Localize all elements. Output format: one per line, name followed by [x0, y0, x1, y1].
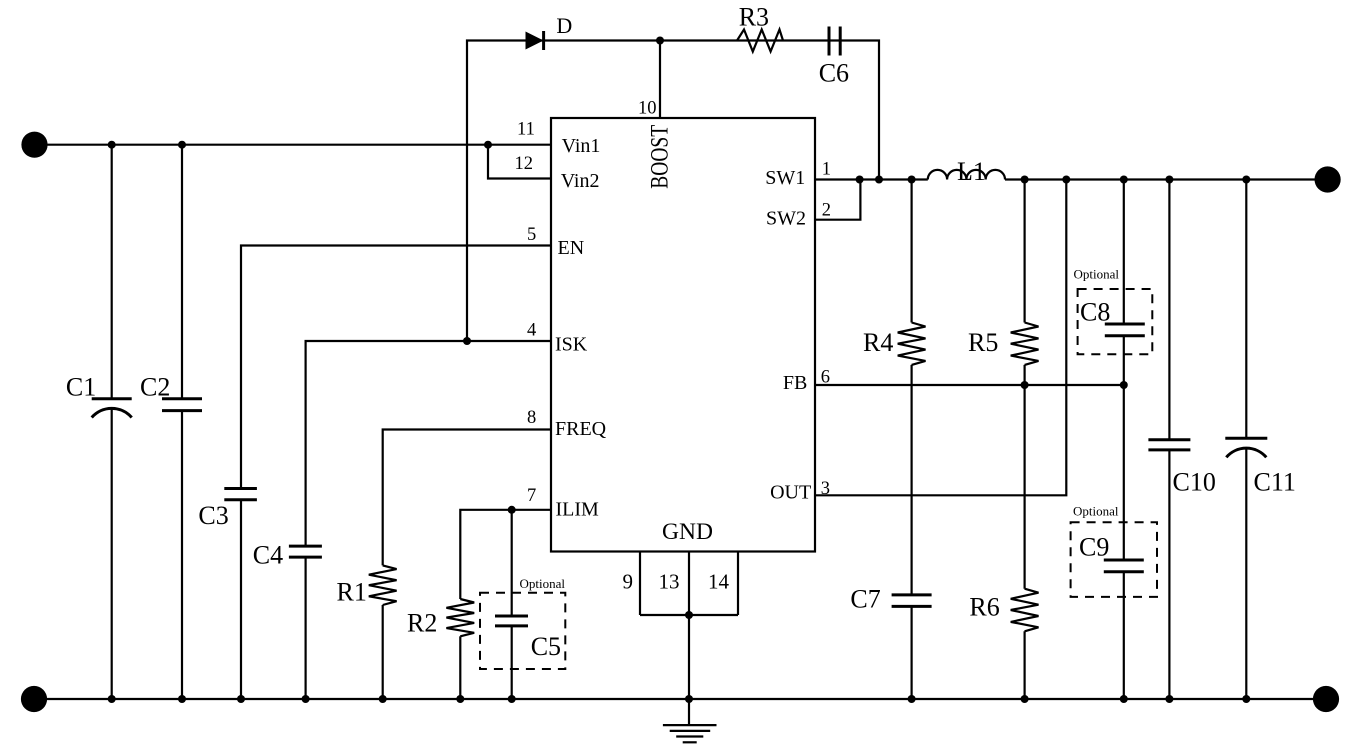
svg-text:FREQ: FREQ [555, 418, 607, 440]
svg-text:FB: FB [783, 372, 807, 394]
svg-text:C4: C4 [253, 541, 283, 570]
svg-text:L1: L1 [957, 157, 986, 186]
svg-text:BOOST: BOOST [645, 125, 673, 189]
svg-text:C1: C1 [66, 372, 96, 401]
svg-text:Vin1: Vin1 [562, 135, 601, 157]
svg-text:C3: C3 [198, 501, 228, 530]
svg-text:GND: GND [662, 519, 713, 545]
svg-text:C5: C5 [531, 632, 561, 661]
svg-text:C11: C11 [1254, 468, 1296, 497]
svg-text:1: 1 [822, 160, 831, 180]
svg-text:R6: R6 [969, 593, 999, 622]
svg-text:C10: C10 [1173, 468, 1216, 497]
svg-text:Optional: Optional [1074, 267, 1120, 282]
svg-text:ILIM: ILIM [556, 499, 600, 521]
svg-text:SW2: SW2 [766, 208, 806, 230]
svg-text:OUT: OUT [770, 482, 811, 504]
svg-text:8: 8 [527, 408, 536, 428]
svg-text:ISK: ISK [555, 334, 588, 356]
svg-text:Optional: Optional [520, 576, 566, 591]
svg-text:R4: R4 [863, 328, 893, 357]
svg-text:C9: C9 [1079, 533, 1109, 562]
svg-text:R2: R2 [407, 609, 437, 638]
svg-text:6: 6 [821, 368, 830, 388]
svg-text:Optional: Optional [1073, 504, 1119, 519]
svg-text:9: 9 [623, 569, 634, 593]
svg-text:C7: C7 [850, 585, 880, 614]
svg-text:3: 3 [821, 479, 830, 499]
svg-text:R1: R1 [337, 578, 367, 607]
svg-text:10: 10 [638, 99, 657, 119]
svg-text:C6: C6 [819, 58, 849, 87]
svg-text:2: 2 [822, 200, 831, 220]
svg-text:C8: C8 [1080, 298, 1110, 327]
svg-text:Vin2: Vin2 [561, 170, 600, 192]
svg-text:R3: R3 [739, 2, 769, 31]
svg-text:11: 11 [517, 119, 535, 139]
svg-text:7: 7 [527, 486, 536, 506]
svg-text:12: 12 [515, 154, 534, 174]
svg-text:D: D [556, 13, 572, 38]
svg-text:5: 5 [527, 225, 536, 245]
svg-text:13: 13 [659, 569, 680, 593]
svg-text:C2: C2 [140, 372, 170, 401]
svg-text:14: 14 [708, 569, 730, 593]
svg-text:EN: EN [558, 237, 585, 259]
svg-text:SW1: SW1 [765, 167, 805, 189]
svg-text:4: 4 [527, 321, 536, 341]
svg-text:R5: R5 [968, 328, 998, 357]
